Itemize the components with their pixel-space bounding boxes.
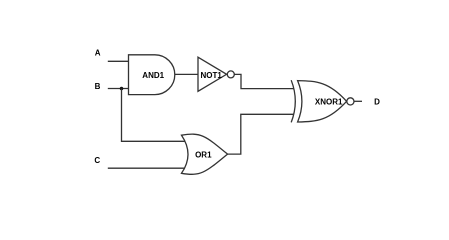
xnor-gate XNOR1 input arc [291, 80, 295, 122]
svg-text:B: B [95, 82, 101, 91]
wire OR1 output to XNOR1 bottom input [228, 114, 295, 154]
wire C to OR1 bottom input [108, 167, 185, 169]
not-gate NOT1 triangle [198, 57, 227, 91]
wire A to AND1 [108, 60, 129, 62]
XNOR1 output bubble [347, 98, 354, 105]
wire B to AND1 [108, 88, 129, 90]
and-gate AND1 [129, 55, 175, 95]
svg-text:AND1: AND1 [142, 71, 164, 80]
NOT1 output bubble [227, 71, 234, 78]
or-gate OR1 [182, 134, 228, 174]
svg-text:NOT1: NOT1 [201, 71, 223, 80]
svg-text:D: D [374, 98, 380, 107]
wire NOT1 to XNOR1 top input [234, 74, 294, 88]
xnor-gate XNOR1 body [298, 81, 347, 122]
wire B branch down to OR1 top input [122, 89, 186, 142]
svg-text:XNOR1: XNOR1 [315, 98, 343, 107]
wire AND1 output to NOT1 [175, 73, 198, 75]
svg-text:OR1: OR1 [195, 150, 212, 159]
svg-text:A: A [95, 48, 101, 57]
wire XNOR1 to D [354, 100, 362, 102]
svg-text:C: C [94, 156, 100, 165]
junction dot on B wire [120, 87, 124, 91]
